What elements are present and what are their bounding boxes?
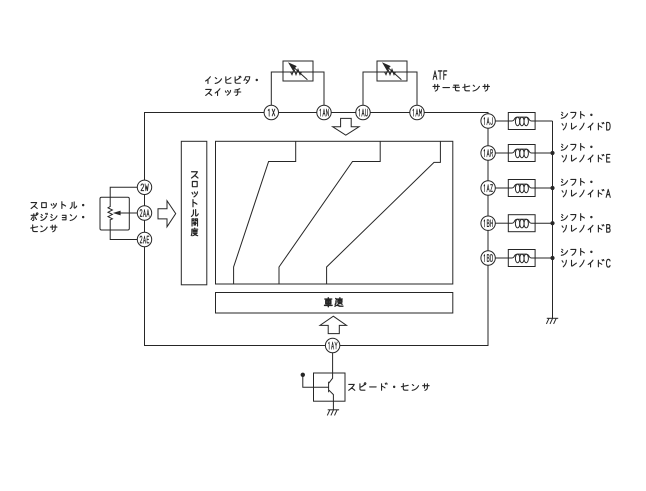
up arrow into vehicle speed <box>320 316 347 333</box>
pin 1AZ <box>481 181 495 195</box>
pin 2AE <box>137 232 151 246</box>
TPS wiper arrowhead <box>113 211 121 216</box>
pin 1AY <box>325 338 339 352</box>
wire pin 1AR to solenoid coil E <box>495 152 508 154</box>
down arrow into graph <box>333 118 360 135</box>
junction dot bus row A <box>550 186 554 190</box>
label inhibitor switch line1 <box>206 76 258 83</box>
label shift solenoid A line2 <box>562 190 604 197</box>
pin 1AN <box>317 105 331 119</box>
wire pin 1BH to solenoid coil B <box>495 222 508 224</box>
label vehicle speed <box>325 298 343 307</box>
shift solenoid C coil <box>508 250 535 267</box>
label speed sensor <box>349 383 429 391</box>
label shift solenoid B line1 <box>561 214 592 221</box>
right arrow throttle opening <box>158 201 176 227</box>
label shift solenoid E line1 <box>561 143 592 150</box>
wire 2W to TPS top <box>110 187 137 207</box>
vehicle speed box <box>216 293 453 314</box>
label inhibitor switch line2 <box>206 89 241 96</box>
pin 1AJ <box>481 114 495 128</box>
pin 1AU <box>356 105 370 119</box>
pin 1BH <box>481 216 495 230</box>
wire solenoid D to bus <box>535 120 553 122</box>
label shift solenoid C line1 <box>561 248 592 255</box>
pin 1BD <box>481 251 495 265</box>
junction dot bus row C <box>550 256 554 260</box>
label TPS line3 <box>31 225 57 232</box>
shift solenoid A coil <box>508 180 535 197</box>
wire emitter to ground <box>332 401 334 410</box>
supply dot <box>301 373 305 377</box>
ground speed sensor <box>328 409 339 411</box>
shift curve 2 <box>279 141 380 284</box>
junction dot bus row B <box>550 221 554 225</box>
wire TPS bottom to 2AE <box>110 220 137 240</box>
wire 1X to inhibitor switch <box>271 72 324 105</box>
pin 1AR <box>481 146 495 160</box>
shift solenoid B coil <box>508 215 535 232</box>
label TPS line2 <box>31 213 84 221</box>
wire solenoid E to bus <box>535 152 553 154</box>
ATF thermosensor variable-resistor symbol <box>385 69 396 74</box>
wire 2AA wiper <box>120 212 138 214</box>
ground solenoid bus <box>547 317 558 319</box>
wire solenoid C to bus <box>535 257 553 259</box>
inhibitor switch variable-resistor symbol <box>291 69 302 74</box>
label thermosensor <box>433 84 490 91</box>
shift solenoid E coil <box>508 145 535 162</box>
throttle position sensor box <box>100 197 129 230</box>
pin 1AM <box>410 105 424 119</box>
wire pin 1BD to solenoid coil C <box>495 257 508 259</box>
throttle opening box <box>181 141 207 284</box>
wire pin 1AJ to solenoid coil D <box>495 120 508 122</box>
label TPS line1 <box>31 202 84 209</box>
label shift solenoid A line1 <box>561 178 592 185</box>
junction dot bus row E <box>550 151 554 155</box>
label shift solenoid B line2 <box>562 225 604 232</box>
label throttle opening vertical <box>191 172 198 236</box>
ECU control unit box U1 <box>145 113 489 346</box>
label shift solenoid C line2 <box>562 260 604 267</box>
speed sensor box <box>314 373 346 401</box>
shift solenoid D coil <box>508 113 535 130</box>
wire 1AU to ATF thermosensor <box>363 72 417 105</box>
speed sensor transistor Q1 <box>314 373 334 401</box>
shift pattern graph box <box>216 141 453 284</box>
shift curve 3 <box>327 141 441 284</box>
label shift solenoid D line1 <box>561 111 592 118</box>
wire solenoid B to bus <box>535 222 553 224</box>
shift curve 1 <box>234 141 296 284</box>
label shift solenoid D line2 <box>562 123 604 130</box>
pin 2AA <box>137 206 151 220</box>
label shift solenoid E line2 <box>562 155 604 162</box>
speed sensor supply stub wire <box>303 376 314 388</box>
inhibitor switch SW1 box <box>283 61 313 81</box>
pin 1X <box>264 105 278 119</box>
TPS resistor zigzag <box>108 207 112 221</box>
pin 2W <box>137 180 151 194</box>
wire solenoid A to bus <box>535 187 553 189</box>
label ATF <box>433 71 447 79</box>
wire 1AY to speed sensor <box>332 353 334 373</box>
ATF thermosensor RT1 box <box>377 61 407 81</box>
solenoid ground bus wire <box>552 121 554 318</box>
wire pin 1AZ to solenoid coil A <box>495 187 508 189</box>
